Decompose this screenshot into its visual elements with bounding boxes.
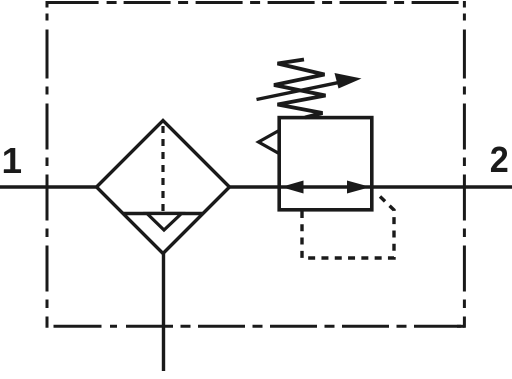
- svg-text:2: 2: [490, 139, 509, 180]
- svg-text:1: 1: [2, 140, 22, 181]
